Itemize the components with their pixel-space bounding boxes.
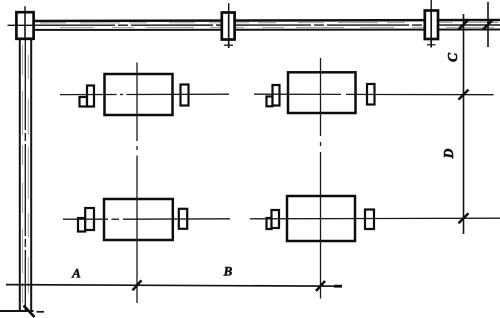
- machine column axis 2 dot: [320, 142, 322, 146]
- top beam axis (dash-dot): [33, 24, 500, 26]
- column Z2 axis tick below: [224, 44, 233, 46]
- column Z3 vertical centerline: [430, 11, 432, 48]
- machine column axis 1 dot: [136, 146, 138, 150]
- row 2 shaft axis segment b: [123, 218, 230, 220]
- machine column axis 1 segment b: [136, 156, 138, 304]
- machine column axis 2 segment b: [320, 152, 322, 299]
- machine M3 right bearing: [179, 209, 187, 229]
- beam scan smudge upper: [40, 22, 498, 25]
- machine column axis 2 segment a: [320, 58, 322, 136]
- machine M2 right bearing: [367, 84, 375, 105]
- column Z3 axis above: [430, 0, 432, 11]
- left wall outer line: [19, 38, 21, 311]
- svg-text:C: C: [445, 52, 460, 62]
- row 1 shaft axis dot: [120, 94, 123, 96]
- machine M4 left coupling block: [267, 218, 272, 229]
- tick A-B junction: [133, 280, 142, 290]
- machine M1 body: [105, 74, 173, 115]
- machine M2 left bearing: [273, 85, 280, 106]
- column Z2 vertical centerline: [228, 13, 230, 48]
- row 2 shaft axis segment a: [63, 218, 108, 220]
- column Z2: [222, 13, 235, 40]
- machine M1 left bearing: [87, 86, 94, 107]
- column Z1 horizontal centerline: [18, 24, 34, 26]
- tick B end: [316, 281, 325, 291]
- tick D bottom: [459, 213, 469, 223]
- row 2 shaft axis dots: [112, 218, 120, 220]
- column Z1 axis dash above: [24, 6, 26, 12]
- machine M3 left bearing: [85, 208, 94, 230]
- svg-text:D: D: [441, 148, 456, 159]
- machine M1 right bearing: [181, 85, 189, 106]
- tick C-D junction: [459, 90, 469, 100]
- row 1 shaft axis segment a: [60, 94, 117, 96]
- column Z3 axis tick below: [427, 44, 436, 46]
- lower left edge line: [0, 310, 34, 312]
- machine M4 body: [287, 196, 355, 241]
- svg-text:B: B: [223, 264, 233, 279]
- machine M1 left coupling block: [80, 97, 88, 107]
- top beam upper line: [32, 20, 500, 21]
- machine M4 right bearing: [365, 210, 374, 230]
- bottom dimension line: [6, 285, 342, 287]
- machine M2 body: [288, 72, 356, 113]
- row 1 shaft axis segment c: [254, 93, 341, 95]
- machine M3 body: [104, 199, 173, 240]
- left wall axis: [24, 38, 26, 311]
- lower left edge line dash: [37, 311, 45, 313]
- machine M2 left coupling block: [267, 97, 273, 107]
- dimension line C-D vertical: [463, 14, 465, 234]
- bottom dimension line end blob: [334, 285, 342, 288]
- column Z1: [16, 12, 33, 39]
- right edge axis line: [487, 2, 489, 47]
- machine M3 left coupling block: [78, 218, 85, 232]
- column Z2 axis above: [228, 3, 230, 12]
- row 2 shaft axis segment c: [250, 217, 500, 220]
- row 1 shaft axis segment d: [346, 93, 494, 95]
- column Z1 vertical centerline: [24, 13, 26, 38]
- machine column axis 1 segment a: [136, 63, 138, 142]
- wall scan smudge 2: [27, 55, 29, 305]
- column Z3: [425, 11, 438, 40]
- svg-text:A: A: [71, 266, 81, 281]
- row 1 shaft axis segment b: [127, 93, 230, 95]
- tick on right edge axis: [483, 20, 493, 30]
- backslash tick bottom-left: [24, 306, 35, 318]
- tick at beam on C line: [459, 20, 469, 30]
- wall scan smudge: [22, 45, 24, 308]
- column Z1 axis dash left: [8, 24, 16, 26]
- left wall inner line: [30, 38, 32, 311]
- machine M4 left bearing: [272, 210, 280, 228]
- beam scan smudge lower: [60, 26, 495, 28]
- top beam lower line: [32, 29, 500, 31]
